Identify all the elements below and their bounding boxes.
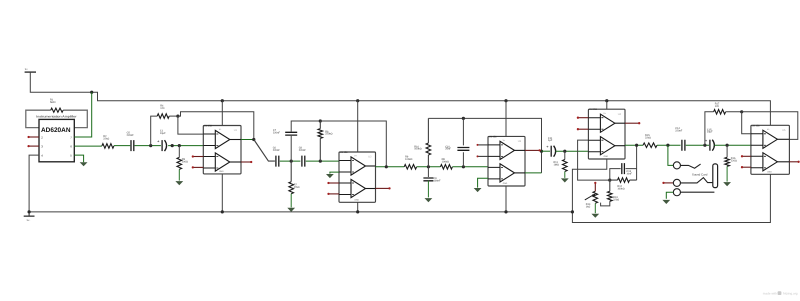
label R4 120 [160,105,165,110]
wire U2 output to R9 [376,166,405,168]
label R16 220ohm [731,157,737,162]
wire C6 to C8 via node n1 [280,160,301,162]
op-amp U5B (bottom unit) [751,153,790,171]
unused U4A output stub [625,122,640,124]
svg-text:47kΩ: 47kΩ [294,186,300,189]
node: U2 output / feedback junction [385,165,388,168]
battery 9V supply symbol [25,68,36,73]
node: R6 bottom tap [319,160,322,163]
sound card jack contact 1 [680,164,700,168]
node: R4 feedback tap between C5 and C1 [149,144,152,147]
svg-text:220nF: 220nF [273,149,281,152]
label C8 220nF [299,147,307,152]
ground below R11 [561,172,569,183]
wire R15 to C14 [657,144,681,146]
resistor R16 [725,145,730,166]
resistor R10 [426,118,431,166]
resistor R6 [318,121,323,161]
op-amp U3A (top unit) [488,141,525,159]
op-amp U4A (top unit) [588,114,625,132]
wire AD620AN pin 6 to R2 [74,145,102,147]
sound card jack ring 1 [673,162,680,169]
wire C11 to U4 input [556,150,589,152]
node: U3 output to C11 junction [540,150,543,153]
resistor R12 [610,178,637,183]
label R6 220k [325,130,332,135]
wire R17 to node X2 [726,111,742,113]
wire U3 non-inverting input to ground [478,178,488,187]
label R2 22k [103,135,109,140]
svg-text:220Ω: 220Ω [613,199,619,202]
svg-text:25nF: 25nF [445,148,451,151]
op-amp IC U2 [339,151,376,202]
unused U1B output stub [241,161,252,163]
wire U3 output up to stage 4 [525,172,542,174]
label C5 220nF [127,132,135,137]
op-amp U5A (top unit) [751,130,790,148]
wire R4 to node X [169,115,178,117]
svg-text:220nF: 220nF [299,149,307,152]
wire U1 output [241,139,254,141]
wire sound card sleeve to ground [666,192,673,199]
label R5 100ohm [182,158,188,163]
wire U4 GND down and to ground bus [572,159,606,212]
svg-text:22kΩ: 22kΩ [103,137,109,140]
label Instrumentation Amplifier [36,114,76,118]
svg-text:fritzing.org: fritzing.org [783,291,798,295]
node: U3 GND at ground bus [504,210,507,213]
svg-text:GND: GND [503,182,508,185]
unused U4A input stub 2 [577,128,589,130]
svg-text:100kΩ: 100kΩ [617,187,624,190]
node n3: C10 tap [462,165,465,168]
wire C11 junction to C11 [542,150,551,152]
ground at AD620AN pin 5 [80,162,88,166]
ground below R7 on bus [287,194,295,212]
ground at sound card [662,200,670,204]
label C11 1uF [548,137,553,142]
svg-text:GND: GND [604,155,609,158]
svg-text:10nF: 10nF [626,172,632,175]
ground at U2 input [326,174,334,178]
ground below C9 (floating) [425,181,433,203]
node: R5 tap [178,144,181,147]
unused U2B input stub 2 [327,193,339,195]
wire AD620AN pin 4 to 9v- rail [29,155,39,212]
wire C1 to U1 input [168,145,203,147]
9V power rail across top [92,92,771,125]
label C15 10uF [707,128,713,133]
wire C7 to feedback rail [291,121,320,132]
svg-text:100Ω: 100Ω [182,160,188,163]
wire R9 to node n2 [417,166,441,168]
op-amp U1B (bottom unit) [203,153,241,171]
label R14 1k [586,203,591,208]
wire feedback R4 left leg [151,116,158,146]
resistor R5 [177,146,182,170]
node: after C1 [171,144,174,147]
wire U2 V+ to 9V rail [357,101,359,152]
wire C13/R12 right to U4 output [626,145,637,180]
unused U5B input stub 2 [741,166,751,168]
label R13 220ohm [613,196,619,201]
node: R17 feedback tap [703,144,706,147]
svg-text:1µF: 1µF [548,139,553,142]
label R9 100k [405,155,412,160]
unused U5B input stub 1 [741,155,751,157]
op-amp IC U5 [751,124,790,174]
svg-text:LM 358: LM 358 [340,151,348,154]
unused U2B output stub [376,187,391,189]
svg-text:LM 358: LM 358 [589,108,597,111]
label C13 10nF [626,170,632,175]
svg-text:Instrumentation Amplifier: Instrumentation Amplifier [36,114,76,118]
label R8 100k [442,158,449,163]
capacitor C8 [302,156,305,167]
wire U4 inverting input riser [578,140,610,180]
node: U2 GND at ground bus [356,210,359,213]
svg-text:220nF: 220nF [127,134,135,137]
node: U4 GND path at ground bus [571,210,574,213]
label C7 220nF [273,129,281,134]
wire U2 GND to ground bus [357,202,359,212]
svg-text:GND: GND [355,198,360,201]
wire U4 V+ to 9V rail [606,101,608,110]
wire C9 branch [427,167,429,177]
node: U4 output / feedback junction [635,144,638,147]
wire R8 to U3 input [452,166,488,168]
node: sound card tap [666,144,669,147]
ground below R16 [723,166,731,186]
label C9 100nF [434,177,442,182]
wire C13 branch left [610,169,621,181]
svg-text:LM 358: LM 358 [752,124,760,127]
wire n1 up to C7 [290,136,292,161]
label C10 25nF [445,145,451,150]
label R7 47k [294,183,300,188]
resistor R13 [608,180,613,201]
op-amp U2A (top unit) [339,157,376,175]
wire node X2 down to U5 input [742,112,751,134]
9V- / ground bus across bottom [29,211,572,213]
wire node X down to U1 input 1 [178,116,203,134]
node: 9V rail to U4 V+ [605,99,608,102]
ground below R14 [591,203,599,218]
wire stage3 feedback rail [428,118,541,172]
node: R11 tap [563,150,566,153]
label C14 220nF [675,127,683,132]
wire U2 non-inverting input to ground [330,172,339,174]
svg-text:120: 120 [160,107,165,110]
wire R17 feedback left leg [705,112,714,145]
capacitor C6 [276,156,279,167]
resistor R2 [102,144,114,149]
capacitor C13 [622,163,625,174]
node N: R12/C13/R13 junction [608,179,611,182]
svg-text:220nF: 220nF [675,130,683,133]
node: U1 GND at ground bus [221,210,224,213]
op-amp IC U4 [588,108,625,159]
wire U3 V+ to 9V rail [505,101,507,137]
wire feedback X2 to U5 output [742,112,798,140]
electrode input stub to AD620AN pin 3 [27,145,39,147]
capacitor C5 [131,140,134,151]
svg-text:LM 358: LM 358 [204,125,212,128]
svg-text:GND: GND [767,170,772,173]
node X: R4 / U1 inverting input / feedback [176,115,179,118]
svg-text:9v-: 9v- [27,219,31,222]
resistor R1 (gain resistor) [51,108,63,112]
wire AD620AN pin 7 to 9V rail [74,92,91,137]
svg-text:100kΩ: 100kΩ [414,148,421,151]
node: 9V rail junction to AD620AN pin 7 [90,91,93,94]
svg-text:10µF: 10µF [160,132,166,135]
op-amp U2B (bottom unit) [339,179,376,197]
svg-text:LM 358: LM 358 [489,135,497,138]
resistor R9 [404,165,416,170]
capacitor C9 [423,178,433,181]
ground return wire to U5 GND [572,174,770,222]
svg-text:Sound Card: Sound Card [692,173,708,177]
wire stage2 feedback rail to U2 output [320,121,386,167]
label R10 100k [414,145,421,150]
label C1 10uF [160,130,166,135]
svg-text:100nF: 100nF [434,180,442,183]
label C6 220nF [273,147,281,152]
wire U4 output [625,144,643,146]
watermark made with fritzing.org [763,291,798,295]
resistor R8 [440,165,452,170]
resistor R7 [289,161,294,194]
capacitor C14 [682,140,685,151]
wire R13 to R14 wiper [601,201,610,206]
ground below R5 [175,169,183,185]
IC U6 AD620AN body [39,119,74,161]
label R15 22k [645,134,651,139]
unused U3A output stub [525,149,541,151]
svg-text:220nF: 220nF [273,131,281,134]
sound card jack ring 3 [673,189,680,196]
unused U4A input stub 1 [577,117,589,119]
unused U5B output stub [789,161,799,163]
wire C15 to U5 input [714,144,751,146]
unused U1B input stub 2 [192,166,204,168]
sound card unused stub [662,182,673,184]
wire AD620AN pin 5 to ground [74,155,83,162]
instrumentation amplifier module outline [26,110,88,127]
capacitor C10 [457,148,469,151]
node: U1 output junction [252,138,255,141]
trimmer potentiometer R14 [585,191,598,203]
sound card jack body [713,164,718,188]
capacitor C11 (polarized) [546,144,555,157]
svg-text:220Ω: 220Ω [731,159,737,162]
capacitor C15 (polarized) [705,138,715,151]
wire feedback from node X over to U1 output [178,112,254,140]
node: R16 tap [726,144,729,147]
resistor R17 [714,110,726,115]
unused U1B input stub 1 [192,155,204,157]
unused U3A input stub 2 [477,155,489,157]
svg-text:1MΩ: 1MΩ [554,163,559,166]
op-amp U1A (top unit) [203,130,241,148]
wire U3 GND to ground bus [505,186,507,212]
electrode input stub to AD620AN pin 2 [27,136,39,138]
node: 9V rail to U2 V+ [356,99,359,102]
battery 9v- negative terminal symbol [24,212,35,222]
sound card jack contact 2 [680,178,712,183]
op-amp U3B (bottom unit) [488,164,525,182]
label R1 5600 [50,98,56,103]
svg-text:GND: GND [219,170,224,173]
node X2: R17 / U5 input / feedback [740,110,743,113]
svg-text:220kΩ: 220kΩ [325,133,332,136]
op-amp IC U3 [488,135,525,186]
ground at U3 input [474,188,482,192]
node n1: C6/C8/C7/R7 junction [290,160,293,163]
resistor R4 [157,114,169,119]
label Sound Card [692,173,708,177]
wire C10 branch [462,118,464,166]
battery 9V positive terminal wire from supply down and across [30,73,91,93]
svg-text:100kΩ: 100kΩ [442,160,449,163]
node: 9V rail to U3 V+ [504,99,507,102]
label R17 120 [715,103,720,108]
capacitor C1 (polarized) [157,139,167,152]
svg-text:120: 120 [715,105,720,108]
svg-text:100kΩ: 100kΩ [405,158,412,161]
wire C8 to U2 input [306,160,339,162]
svg-text:made with: made with [763,291,777,295]
unused U2B input stub 1 [327,182,339,184]
wire U1 V+ to 9V rail [221,101,223,126]
node: 9V rail to U1 V+ [221,99,224,102]
wire C14 to C15 [686,144,709,146]
resistor R15 [643,143,657,148]
wire sound card signal from node [668,145,673,165]
svg-text:10µF: 10µF [707,131,713,134]
svg-text:22kΩ: 22kΩ [645,136,651,139]
wire U1 GND to ground bus [221,174,223,212]
wire U1 output diagonal to stage 2 [254,140,275,162]
capacitor C7 [285,132,297,135]
svg-text:AD620AN: AD620AN [41,127,71,134]
node n2: R9/R8/R10/C9 [427,165,430,168]
node: 9v- rail start [28,210,31,213]
op-amp U4B (bottom unit) [588,137,625,155]
label R12 100k [617,185,624,190]
unused U3A input stub 1 [477,144,489,146]
sound card jack contact 3 [680,191,714,193]
wire C5 to C1 via node [135,145,161,147]
svg-text:5600: 5600 [50,101,56,104]
wire R2 to C5 [114,145,130,147]
node: C10 top at feedback rail [462,117,465,120]
node: R6 top at feedback rail [319,119,322,122]
resistor R11 [563,151,568,171]
sound card jack ring 2 [673,179,680,186]
svg-text:1kΩ: 1kΩ [586,205,591,208]
op-amp IC U1 [203,125,241,174]
label R11 1M [554,161,559,166]
unused R14 top stub [594,182,596,192]
